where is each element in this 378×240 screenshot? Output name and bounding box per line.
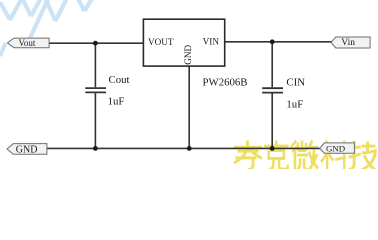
svg-text:1uF: 1uF: [286, 99, 303, 111]
svg-text:GND: GND: [326, 144, 345, 154]
svg-text:CIN: CIN: [286, 77, 305, 89]
svg-text:VIN: VIN: [203, 37, 220, 47]
svg-text:Vout: Vout: [19, 38, 36, 48]
svg-text:VOUT: VOUT: [148, 37, 174, 47]
svg-text:PW2606B: PW2606B: [203, 76, 248, 88]
svg-text:GND: GND: [16, 145, 38, 156]
svg-text:Vin: Vin: [341, 38, 355, 48]
svg-text:Cout: Cout: [109, 74, 130, 86]
svg-text:1uF: 1uF: [108, 95, 125, 107]
svg-text:GND: GND: [183, 45, 193, 65]
